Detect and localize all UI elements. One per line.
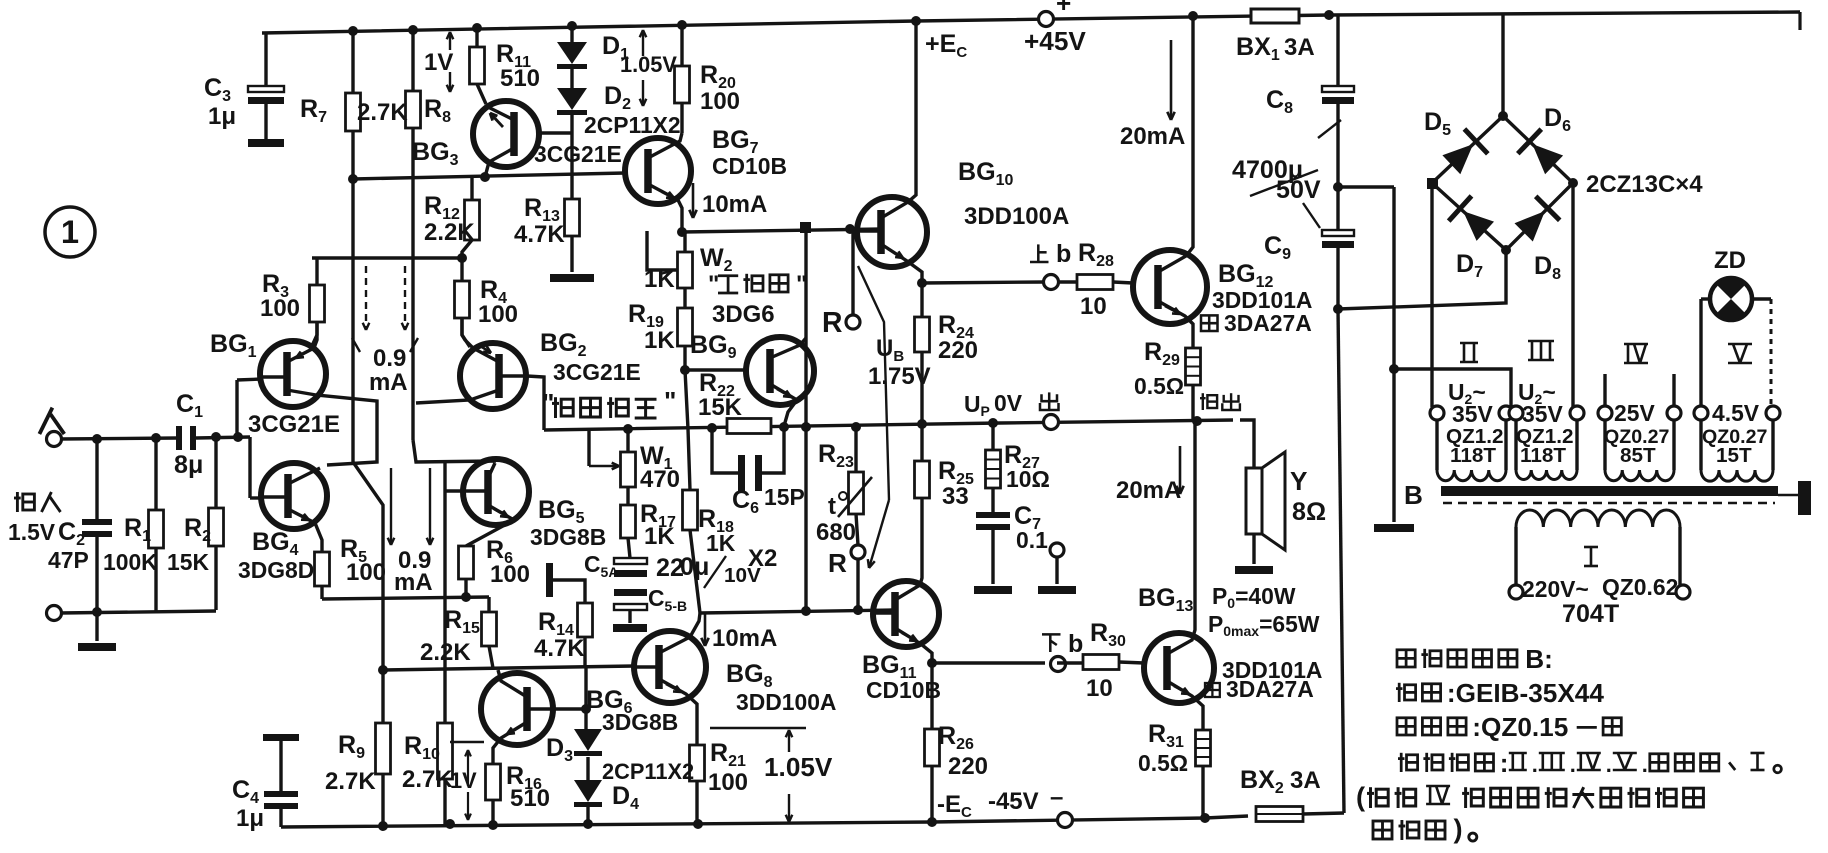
svg-text:1K: 1K	[644, 266, 675, 293]
svg-text:2CP11X2: 2CP11X2	[602, 759, 694, 784]
svg-text:680: 680	[816, 519, 856, 546]
svg-text:b: b	[1068, 630, 1083, 658]
svg-text:.: .	[1642, 752, 1648, 777]
svg-text:4.7K: 4.7K	[534, 635, 585, 662]
svg-text:220V~: 220V~	[1522, 576, 1589, 602]
svg-text:3DA27A: 3DA27A	[1224, 310, 1312, 336]
svg-text:0.1: 0.1	[1016, 527, 1048, 553]
svg-text:2.2K: 2.2K	[424, 219, 475, 246]
svg-text:3DG8B: 3DG8B	[602, 709, 678, 735]
svg-text:1.5V: 1.5V	[8, 519, 56, 545]
svg-text:10: 10	[1086, 675, 1113, 702]
svg-text:B: B	[1404, 480, 1423, 510]
svg-text:": "	[796, 271, 807, 298]
svg-text:CD10B: CD10B	[866, 677, 941, 703]
svg-text:+: +	[1056, 0, 1071, 18]
svg-text:P0=40W: P0=40W	[1212, 583, 1296, 611]
svg-text:1K: 1K	[706, 530, 736, 556]
svg-text:100: 100	[708, 769, 748, 796]
svg-text::QZ0.15: :QZ0.15	[1472, 712, 1568, 742]
svg-text:2.2K: 2.2K	[420, 639, 471, 666]
svg-text:Y: Y	[1290, 466, 1308, 496]
svg-text:(: (	[1356, 781, 1366, 812]
svg-text:2.7K: 2.7K	[325, 768, 376, 795]
svg-text:3CG21E: 3CG21E	[248, 411, 340, 438]
svg-text:t: t	[828, 493, 836, 520]
svg-text:100: 100	[700, 88, 740, 115]
svg-text:3DD100A: 3DD100A	[736, 689, 836, 715]
svg-text:-45V: -45V	[988, 788, 1039, 815]
svg-text:1V: 1V	[424, 49, 453, 76]
svg-text:R: R	[822, 307, 842, 339]
svg-text:470: 470	[640, 466, 680, 493]
svg-text:10mA: 10mA	[712, 625, 777, 652]
svg-text:510: 510	[500, 65, 540, 92]
svg-text:50V: 50V	[1276, 176, 1321, 204]
svg-text:100: 100	[346, 559, 386, 586]
svg-text:3DG8D: 3DG8D	[238, 557, 314, 583]
svg-text:3A: 3A	[1290, 767, 1321, 794]
svg-text:+45V: +45V	[1024, 26, 1086, 56]
svg-text:1: 1	[61, 213, 79, 250]
svg-text:100K: 100K	[103, 549, 158, 575]
svg-text:3DA27A: 3DA27A	[1226, 676, 1314, 702]
svg-text:0μ: 0μ	[680, 553, 709, 581]
svg-text:3DG8B: 3DG8B	[530, 524, 606, 550]
svg-text:85T: 85T	[1620, 444, 1656, 467]
svg-text:220: 220	[938, 337, 978, 364]
svg-text:118T: 118T	[1520, 444, 1566, 467]
svg-text:1.05V: 1.05V	[764, 752, 833, 782]
svg-text:8Ω: 8Ω	[1292, 498, 1326, 526]
svg-text:8μ: 8μ	[174, 451, 203, 479]
svg-text:3CG21E: 3CG21E	[553, 359, 641, 385]
svg-text:0.5Ω: 0.5Ω	[1134, 373, 1184, 399]
svg-text:35V: 35V	[1522, 401, 1563, 427]
svg-text:220: 220	[948, 753, 988, 780]
svg-text:704T: 704T	[1562, 600, 1620, 628]
svg-text:": "	[664, 386, 676, 416]
svg-text:1μ: 1μ	[208, 103, 236, 130]
svg-text:): )	[1454, 813, 1463, 844]
svg-text:B:: B:	[1525, 644, 1553, 674]
svg-text:1μ: 1μ	[236, 805, 264, 832]
svg-text:b: b	[1056, 240, 1071, 268]
svg-text:20mA: 20mA	[1120, 123, 1185, 150]
svg-text:15K: 15K	[698, 394, 743, 421]
svg-text:.: .	[1606, 752, 1612, 777]
svg-text:–: –	[1050, 784, 1063, 811]
svg-text:1V: 1V	[450, 768, 477, 793]
svg-text:R: R	[828, 548, 847, 578]
svg-text:0V: 0V	[994, 390, 1023, 416]
svg-text:1K: 1K	[644, 523, 675, 550]
svg-text:0.9: 0.9	[373, 345, 406, 372]
svg-text:1K: 1K	[644, 327, 675, 354]
svg-text:3A: 3A	[1284, 34, 1315, 61]
svg-text:0.5Ω: 0.5Ω	[1138, 750, 1188, 776]
svg-text:2.7K: 2.7K	[357, 99, 408, 126]
svg-text:.: .	[1532, 752, 1538, 777]
svg-text:510: 510	[510, 785, 550, 812]
svg-text::: :	[1500, 748, 1509, 778]
svg-text:4.5V: 4.5V	[1712, 400, 1760, 426]
svg-text:1.75V: 1.75V	[868, 363, 931, 390]
svg-text:2CP11X2: 2CP11X2	[584, 112, 681, 138]
svg-text:4.7K: 4.7K	[514, 221, 565, 248]
svg-text:3DD100A: 3DD100A	[964, 203, 1069, 230]
svg-text:.: .	[1570, 752, 1576, 777]
svg-text:2.7K: 2.7K	[402, 766, 453, 793]
svg-text:100: 100	[260, 295, 300, 322]
svg-text:15P: 15P	[764, 484, 805, 510]
svg-text:X2: X2	[748, 545, 777, 572]
svg-text:ZD: ZD	[1714, 247, 1746, 274]
svg-text:15K: 15K	[167, 549, 209, 575]
svg-text::GEIB-35X44: :GEIB-35X44	[1447, 678, 1604, 708]
svg-text:CD10B: CD10B	[712, 153, 787, 179]
svg-text:15T: 15T	[1716, 444, 1752, 467]
svg-text:10Ω: 10Ω	[1006, 466, 1050, 492]
svg-text:100: 100	[490, 561, 530, 588]
svg-text:10mA: 10mA	[702, 191, 767, 218]
svg-text:33: 33	[942, 483, 969, 510]
svg-text:": "	[708, 271, 719, 298]
svg-text:35V: 35V	[1452, 401, 1493, 427]
svg-text:mA: mA	[394, 569, 433, 596]
svg-text:3CG21E: 3CG21E	[534, 141, 622, 167]
svg-text:2CZ13C×4: 2CZ13C×4	[1586, 171, 1703, 198]
svg-text:47P: 47P	[48, 547, 89, 573]
svg-text:118T: 118T	[1450, 444, 1496, 467]
svg-text:25V: 25V	[1614, 400, 1655, 426]
svg-text:QZ0.62: QZ0.62	[1602, 574, 1678, 600]
svg-text:100: 100	[478, 301, 518, 328]
svg-text:10: 10	[1080, 293, 1107, 320]
svg-text:22: 22	[656, 554, 684, 582]
svg-text:20mA: 20mA	[1116, 477, 1181, 504]
svg-text:mA: mA	[369, 369, 408, 396]
svg-text:3DG6: 3DG6	[712, 301, 775, 328]
